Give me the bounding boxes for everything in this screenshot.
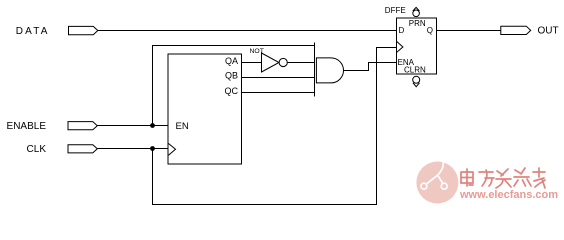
prn balloon bbox=[413, 7, 420, 16]
dffe U2 box bbox=[397, 18, 437, 74]
svg-text:www.elecfans.com: www.elecfans.com bbox=[459, 189, 558, 201]
watermark logo circle bbox=[416, 160, 458, 204]
svg-text:D: D bbox=[399, 26, 405, 35]
counter block U1 bbox=[168, 54, 241, 164]
svg-text:QC: QC bbox=[225, 86, 239, 96]
wire ENABLE to EN bbox=[97, 125, 168, 127]
svg-text:QA: QA bbox=[225, 56, 238, 66]
junction CLK node bbox=[150, 146, 155, 151]
wire ENABLE rail to AND input bbox=[153, 46, 315, 126]
output pin OUT bbox=[501, 26, 531, 34]
and gate AND4 bbox=[316, 58, 343, 83]
wire QB to AND bbox=[241, 77, 314, 79]
svg-text:DFFE: DFFE bbox=[385, 6, 406, 15]
wire QA to NOT bbox=[241, 62, 261, 64]
wire NOT output to AND bbox=[287, 62, 314, 64]
svg-text:CLK: CLK bbox=[27, 144, 47, 155]
svg-text:OUT: OUT bbox=[538, 26, 559, 37]
input pin CLK bbox=[68, 145, 97, 153]
svg-text:CLRN: CLRN bbox=[404, 66, 426, 75]
watermark text dian zi fa shao you bbox=[461, 168, 545, 188]
wire QC to AND bbox=[241, 92, 314, 94]
svg-text:EN: EN bbox=[176, 121, 189, 132]
wire AND output to ENA bbox=[344, 63, 397, 71]
counter clock triangle bbox=[169, 144, 176, 156]
wire CLK feedback to DFFE clock bbox=[153, 48, 397, 205]
not gate bbox=[262, 53, 280, 72]
wire Q to OUT bbox=[437, 30, 501, 32]
svg-text:DATA: DATA bbox=[16, 26, 50, 37]
input pin ENABLE bbox=[68, 122, 97, 130]
wire DATA to D input bbox=[98, 30, 397, 32]
and gate input ladder bbox=[314, 43, 316, 97]
svg-text:Q: Q bbox=[427, 26, 433, 35]
svg-text:PRN: PRN bbox=[409, 19, 426, 28]
wire CLK to counter clock bbox=[97, 148, 168, 150]
dffe clock triangle bbox=[397, 41, 403, 52]
input pin DATA bbox=[69, 26, 98, 34]
junction ENABLE node bbox=[150, 123, 155, 128]
svg-text:QB: QB bbox=[225, 71, 238, 81]
clrn balloon bbox=[413, 76, 420, 86]
svg-text:ENABLE: ENABLE bbox=[7, 121, 47, 132]
